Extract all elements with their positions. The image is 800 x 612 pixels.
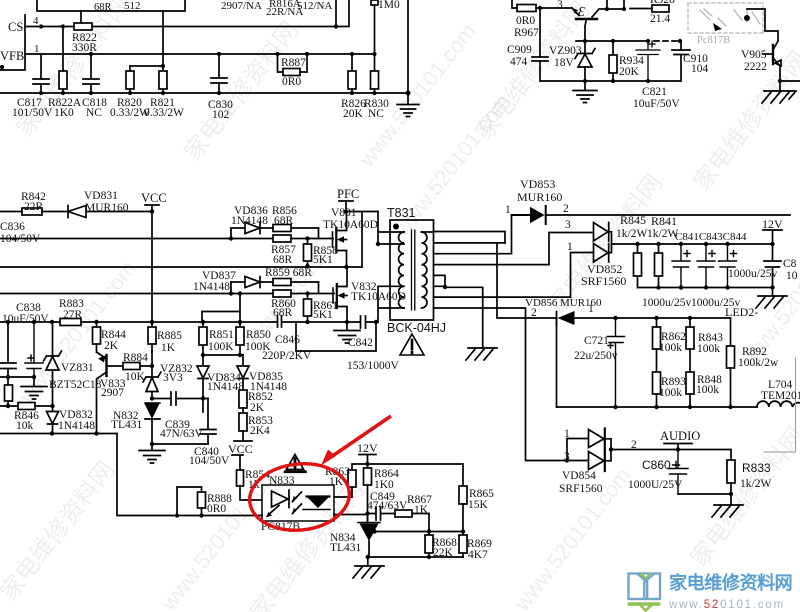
svg-text:10K: 10K — [125, 371, 146, 383]
svg-text:1K0: 1K0 — [374, 479, 394, 491]
resistor R9xx (top right, cut) — [630, 8, 652, 10]
svg-text:2: 2 — [531, 307, 537, 319]
svg-text:BZT52C18: BZT52C18 — [49, 379, 102, 391]
wire ground bus top — [0, 92, 408, 94]
diode VD852 top — [594, 223, 609, 242]
svg-text:68R: 68R — [273, 307, 293, 319]
zener VZ832 — [143, 352, 161, 399]
optocoupler N833 box — [262, 485, 334, 521]
resistor R934 — [612, 41, 614, 81]
wire C860 bottom — [678, 493, 731, 495]
wire PFC to transformer — [346, 212, 378, 268]
svg-text:TK10A60D: TK10A60D — [323, 219, 378, 231]
svg-text:VZ903: VZ903 — [549, 45, 582, 57]
resistor R865 — [459, 486, 467, 504]
svg-text:102: 102 — [212, 109, 230, 121]
svg-text:1N4148: 1N4148 — [193, 281, 230, 293]
wire VD837 bracket — [231, 282, 319, 294]
resistor R858 — [307, 239, 309, 267]
wire TL431 ref rail — [373, 531, 463, 533]
diode VD837 + resistor R859 branch — [231, 277, 319, 288]
capacitor C818 — [83, 54, 99, 93]
resistor R868 — [428, 532, 430, 558]
svg-text:2K4: 2K4 — [250, 425, 270, 437]
resistor R853 — [242, 408, 244, 413]
resistor R822 (in-line on CS) — [74, 23, 92, 30]
capacitor C817 — [33, 54, 49, 93]
wire VD852 cathodes join — [609, 232, 638, 253]
svg-text:330R: 330R — [72, 42, 97, 54]
node CS dots — [39, 24, 338, 28]
resistor R826 — [351, 54, 353, 93]
svg-text:4: 4 — [33, 15, 39, 27]
svg-text:VCC: VCC — [228, 442, 253, 456]
wire VD836 bracket — [231, 228, 319, 239]
resistor R861 — [307, 294, 309, 323]
svg-text:22u/250v: 22u/250v — [574, 350, 618, 362]
resistor R892 — [730, 318, 732, 407]
diode VD852 bottom — [594, 244, 609, 263]
svg-text:100K: 100K — [245, 341, 271, 353]
wire TL431 anode — [152, 443, 208, 445]
capacitor C909 — [532, 57, 548, 61]
resistor R862 — [656, 318, 658, 372]
svg-text:VD853: VD853 — [520, 177, 555, 191]
resistor R887 (bridge below VFB) — [278, 54, 308, 72]
capacitor C721 polarized — [608, 318, 625, 407]
svg-text:68R: 68R — [273, 254, 293, 266]
svg-text:5K1: 5K1 — [313, 254, 333, 266]
wire secondary tap 4 to VD852 pin3 — [434, 233, 594, 265]
wire R967 to V9xx — [540, 7, 572, 9]
diode VD856 — [556, 312, 558, 325]
transistor V9xx PNP (top) — [572, 8, 579, 16]
svg-text:512: 512 — [124, 0, 141, 12]
svg-text:R833: R833 — [742, 461, 771, 475]
svg-text:104: 104 — [691, 63, 709, 75]
transistor V832 MOSFET — [332, 288, 334, 303]
svg-text:N833: N833 — [269, 475, 295, 487]
svg-text:1K: 1K — [161, 342, 176, 354]
shunt-reg N832 TL431 — [145, 402, 160, 404]
diode VD836 + resistor R856 branch — [231, 223, 319, 234]
wire LED2- return rail — [557, 406, 758, 408]
transistor V833 PNP — [105, 355, 107, 376]
wire output rail 12V (y244) — [638, 243, 773, 245]
svg-text:R928: R928 — [650, 0, 675, 6]
capacitor C821 polarized — [636, 41, 660, 81]
resistor R820 — [129, 66, 131, 93]
wire secondary tap 1 to VD853 — [422, 232, 506, 243]
svg-text:VCC: VCC — [141, 191, 167, 205]
ground (under N832) — [139, 444, 165, 463]
svg-text:474: 474 — [510, 56, 528, 68]
wire R851/R850 bottom tie — [203, 354, 243, 356]
transformer T831 box — [390, 220, 434, 320]
capacitor C842 (in-line bus D) — [361, 316, 366, 328]
resistor R863 — [352, 464, 368, 497]
svg-text:22R: 22R — [24, 201, 44, 213]
svg-text:2907: 2907 — [101, 387, 124, 399]
svg-text:0R0: 0R0 — [207, 503, 226, 515]
svg-text:C8: C8 — [783, 258, 797, 270]
transformer core — [412, 230, 415, 310]
wire x8/x34 tie — [0, 376, 34, 378]
ground (slashed, output rail) — [756, 288, 787, 309]
transformer phase dot — [393, 224, 399, 230]
resistor R851 — [202, 322, 204, 355]
capacitor C838 polarized — [25, 322, 43, 377]
wire C846 detour loop — [296, 322, 376, 351]
red circle around N833 — [246, 459, 352, 535]
resistor R867 — [395, 510, 412, 517]
12V rail symbol (left) — [359, 455, 376, 465]
svg-text:R967: R967 — [514, 27, 539, 39]
svg-text:R859 68R: R859 68R — [265, 267, 312, 279]
wire VD856 feed — [497, 243, 557, 318]
svg-text:VZ831: VZ831 — [61, 362, 94, 374]
svg-text:Ɛ: Ɛ — [578, 5, 585, 20]
svg-text:1: 1 — [34, 43, 40, 55]
resistor R842 — [22, 208, 42, 215]
wire IC left edge — [0, 15, 25, 70]
wire VZ903 node line — [576, 40, 648, 42]
svg-text:www.520101.com: www.520101.com — [668, 599, 785, 611]
svg-text:VD854: VD854 — [562, 470, 596, 482]
capacitor C849 — [368, 507, 396, 520]
zener VZ903 — [575, 41, 595, 81]
svg-text:10: 10 — [786, 270, 798, 282]
svg-text:68R: 68R — [274, 215, 294, 227]
logo book icon — [629, 574, 661, 600]
capacitor C844 polarized — [719, 244, 737, 288]
resistor R893 — [653, 372, 661, 394]
resistor R864 — [367, 464, 369, 523]
svg-text:0.33/2W: 0.33/2W — [144, 107, 184, 119]
svg-text:10uF/50V: 10uF/50V — [633, 98, 680, 110]
REDMARK — [246, 416, 391, 535]
transformer secondary winding — [422, 232, 427, 308]
resistor R852 — [239, 390, 247, 408]
svg-text:18V: 18V — [554, 57, 575, 69]
resistor R8xx (x8 column) — [7, 377, 9, 406]
svg-text:1K: 1K — [414, 504, 429, 516]
capacitor C8xx (right edge, cut) — [764, 244, 781, 288]
svg-text:C842: C842 — [348, 337, 373, 349]
ground (under VZ903) — [573, 81, 597, 103]
capacitor C846 (in-line bus D) — [278, 316, 282, 327]
svg-text:R885: R885 — [157, 330, 182, 342]
svg-text:100k: 100k — [696, 384, 719, 396]
resistor R833 — [727, 460, 735, 483]
svg-text:20K: 20K — [619, 66, 640, 78]
resistor R883 (in-line bus D) — [60, 319, 81, 326]
svg-text:10uF/50V: 10uF/50V — [2, 313, 49, 325]
svg-text:100k: 100k — [659, 342, 682, 354]
resistor R854 — [237, 470, 244, 486]
resistor R884 — [107, 365, 153, 367]
AUDIO rail symbol — [664, 444, 692, 450]
capacitor C843 polarized — [697, 244, 715, 288]
svg-text:NC: NC — [86, 107, 102, 119]
svg-text:2: 2 — [631, 439, 637, 451]
resistor R822A — [62, 27, 64, 94]
svg-text:C909: C909 — [507, 44, 532, 56]
inductor L704 — [757, 401, 800, 407]
wire audio node to R833 — [678, 450, 731, 461]
svg-text:MUR160: MUR160 — [517, 190, 562, 204]
resistor R888 with bypass loop — [177, 487, 202, 516]
wire output bottom rail — [638, 287, 773, 289]
12V rail symbol (right, underlined label) — [763, 230, 782, 244]
optocoupler N833 photodetector — [307, 495, 330, 497]
ground (under C842 node) — [334, 322, 360, 343]
svg-text:0R0: 0R0 — [282, 76, 301, 88]
wire secondary tap 7 to VD852 pin1 — [434, 253, 594, 298]
svg-text:1K0: 1K0 — [54, 107, 74, 119]
diode VD831 — [68, 206, 86, 218]
resistor R830 — [374, 54, 376, 93]
svg-text:C860: C860 — [642, 458, 671, 472]
diode VD835 — [237, 355, 249, 390]
wire primary taps — [378, 212, 404, 323]
svg-text:2222: 2222 — [744, 61, 767, 73]
svg-text:100k: 100k — [697, 343, 720, 355]
warning triangle (above opto) — [286, 455, 303, 470]
svg-text:104/50V: 104/50V — [0, 233, 41, 245]
resistor R869 — [462, 532, 464, 558]
resistor R843 — [689, 318, 691, 372]
transistor V905 NPN — [772, 45, 774, 64]
svg-text:21.4: 21.4 — [650, 13, 670, 25]
svg-text:15K: 15K — [468, 499, 489, 511]
svg-text:1: 1 — [564, 428, 570, 440]
svg-text:V831: V831 — [331, 207, 357, 219]
capacitor C860 polarized — [668, 450, 688, 495]
wire opto pins right — [334, 497, 368, 515]
node dots on buses — [229, 236, 349, 295]
diode VD853 — [512, 206, 546, 224]
svg-text:BCK-04HJ: BCK-04HJ — [387, 321, 446, 335]
transformer primary winding — [399, 232, 404, 308]
svg-text:512/NA: 512/NA — [297, 0, 333, 12]
svg-text:2K: 2K — [250, 402, 265, 414]
svg-text:474/63V: 474/63V — [367, 500, 408, 512]
svg-text:T831: T831 — [387, 206, 416, 220]
svg-text:R845: R845 — [620, 213, 646, 227]
optocoupler N833 light arrows — [293, 492, 302, 514]
svg-text:2907/NA: 2907/NA — [221, 0, 262, 12]
svg-text:1k/2W: 1k/2W — [740, 478, 771, 490]
wire C821 bus — [540, 8, 680, 81]
wire bus B (y267) — [0, 266, 362, 268]
wire R850 top link to bus C — [202, 294, 240, 323]
optocoupler N833 LED — [288, 490, 290, 508]
resistor R860 (in-line bus C) — [273, 290, 291, 297]
resistor R885 — [151, 322, 153, 352]
wire dashed link to opto (C910 node) — [654, 40, 678, 42]
svg-text:1: 1 — [588, 303, 594, 315]
svg-text:4K7: 4K7 — [468, 549, 488, 561]
IC U8xx box (cut off at top) — [37, 0, 185, 11]
svg-text:R887: R887 — [281, 57, 306, 69]
wire bottom long run to opto — [0, 434, 262, 516]
VCC rail symbol (down, above R854) — [232, 441, 252, 470]
svg-text:3V3: 3V3 — [163, 372, 183, 384]
svg-text:3: 3 — [557, 0, 563, 11]
svg-text:PFC: PFC — [337, 187, 359, 201]
svg-text:AUDIO: AUDIO — [660, 429, 700, 443]
wire bottom tie rail — [368, 556, 463, 558]
transistor V831 MOSFET — [332, 232, 334, 247]
wire secondary tap 8 to VD854 — [434, 308, 568, 461]
ground (slashed, secondary) — [466, 348, 497, 360]
wire secondary tap 3 — [434, 215, 512, 254]
svg-text:1N4148: 1N4148 — [231, 215, 268, 227]
svg-text:C836: C836 — [0, 221, 25, 233]
wire VCC feed line — [0, 211, 152, 213]
wire CS pin line — [25, 0, 349, 27]
resistor R844 — [96, 322, 98, 352]
svg-text:VD856: VD856 — [525, 297, 558, 309]
svg-text:V905: V905 — [741, 49, 767, 61]
wire secondary tap 2 — [434, 242, 506, 244]
svg-text:1: 1 — [567, 241, 573, 253]
node dots bus D left — [6, 320, 242, 324]
svg-text:47N/63V: 47N/63V — [160, 428, 204, 440]
svg-text:3: 3 — [565, 219, 571, 231]
svg-text:20K: 20K — [343, 108, 364, 120]
diode VD832 — [47, 406, 59, 434]
resistor R816B 1M0 (top) — [374, 5, 376, 54]
wire bus C (y293) — [0, 293, 334, 295]
svg-text:1k/2W: 1k/2W — [647, 228, 678, 240]
diode VD854 pair — [567, 430, 604, 461]
svg-text:100k: 100k — [659, 387, 682, 399]
svg-text:1N4148: 1N4148 — [58, 420, 95, 432]
VCC rail symbol — [145, 205, 159, 212]
svg-text:1: 1 — [505, 204, 511, 216]
svg-text:R851: R851 — [209, 329, 234, 341]
svg-text:1000u/25v: 1000u/25v — [728, 268, 777, 280]
svg-text:LED2-: LED2- — [725, 305, 758, 319]
L704 module outline (thin) — [764, 358, 796, 452]
ground (under C838) — [21, 377, 47, 399]
svg-text:C821: C821 — [642, 86, 667, 98]
svg-text:NC: NC — [368, 108, 384, 120]
shunt-reg N834 TL431 — [358, 522, 380, 524]
wire secondary taps 5+6 to ground — [434, 275, 483, 348]
svg-text:1000u/25v: 1000u/25v — [642, 297, 691, 309]
resistor R857 (in-line bus A) — [273, 235, 291, 242]
svg-text:153/1000V: 153/1000V — [347, 360, 399, 372]
ground (slashed, under N834) — [353, 557, 384, 578]
resistor R848 — [686, 372, 694, 394]
svg-text:R884: R884 — [123, 352, 148, 364]
ground (slashed, under R833) — [712, 505, 743, 517]
svg-text:104/50V: 104/50V — [189, 455, 230, 467]
svg-text:10k: 10k — [16, 420, 34, 432]
svg-text:1k/2W: 1k/2W — [616, 228, 647, 240]
resistor R821 — [130, 11, 163, 93]
svg-text:R841: R841 — [651, 214, 677, 228]
svg-text:MUR160: MUR160 — [560, 297, 602, 309]
red arrow — [331, 416, 391, 457]
svg-text:2K: 2K — [104, 340, 119, 352]
svg-text:SRF1560: SRF1560 — [581, 274, 626, 288]
wire bus D (y322) — [0, 321, 378, 323]
svg-text:2: 2 — [563, 203, 569, 215]
svg-text:C721: C721 — [584, 335, 609, 347]
ground (top, x408) — [397, 0, 419, 117]
svg-text:3: 3 — [564, 451, 570, 463]
capacitor C910 — [672, 41, 690, 81]
svg-text:TL431: TL431 — [330, 542, 362, 554]
resistor R850 — [239, 322, 241, 355]
capacitor C8xx (x8 column) — [0, 322, 16, 377]
svg-text:C841C843C844: C841C843C844 — [675, 231, 747, 243]
capacitor C839 — [152, 392, 208, 405]
node VD834/C839 junction — [201, 396, 205, 400]
wire VFB line — [25, 53, 375, 55]
svg-text:22K: 22K — [433, 547, 454, 559]
LOGO — [628, 572, 793, 611]
wire IC pin stub x81 — [80, 11, 82, 27]
resistor R967 — [512, 0, 540, 8]
svg-text:12V: 12V — [762, 217, 783, 231]
zener VZ831 — [44, 322, 62, 406]
svg-text:VD831: VD831 — [84, 190, 118, 202]
svg-text:1N4148: 1N4148 — [207, 381, 244, 393]
svg-text:家电维修资料网: 家电维修资料网 — [669, 572, 792, 593]
wire opto to V905 — [747, 9, 778, 41]
optocoupler N9xx PC817B (faded) — [688, 3, 763, 33]
svg-text:VFB: VFB — [0, 49, 24, 63]
node VFB dots — [89, 52, 377, 56]
resistor R845 — [637, 244, 639, 288]
svg-text:100K: 100K — [208, 341, 234, 353]
svg-text:68R: 68R — [94, 2, 112, 13]
wire 12V to R865 — [368, 464, 464, 486]
capacitor C840 — [200, 399, 216, 445]
svg-text:TEM201: TEM201 — [761, 390, 800, 402]
capacitor C830 — [211, 54, 227, 93]
node dots LED2- rail — [613, 316, 692, 320]
wire VD856 anode stub down — [556, 318, 558, 407]
svg-text:Pc817B: Pc817B — [697, 35, 730, 46]
capacitor C841 polarized — [672, 244, 690, 288]
svg-text:CS: CS — [8, 20, 23, 34]
wire V905 emitter out — [780, 81, 800, 91]
svg-text:100k/2w: 100k/2w — [738, 357, 779, 369]
svg-text:101/50V: 101/50V — [12, 107, 53, 119]
svg-text:R850: R850 — [246, 329, 271, 341]
svg-text:0R0: 0R0 — [516, 15, 535, 27]
resistor R841 — [658, 244, 660, 288]
resistor R846 — [0, 405, 53, 407]
svg-text:1M0: 1M0 — [378, 0, 400, 11]
PFC rail symbol — [339, 201, 353, 212]
svg-text:TL431: TL431 — [111, 419, 143, 431]
svg-text:1000U/25V: 1000U/25V — [628, 479, 683, 491]
ground (slashed, under V905) — [762, 91, 796, 103]
diode VD834 — [197, 355, 209, 412]
wire bus A (y238) — [0, 238, 333, 240]
svg-text:12V: 12V — [357, 441, 378, 455]
svg-text:C846: C846 — [275, 334, 300, 346]
svg-text:SRF1560: SRF1560 — [559, 483, 603, 495]
svg-text:5K1: 5K1 — [313, 309, 333, 321]
